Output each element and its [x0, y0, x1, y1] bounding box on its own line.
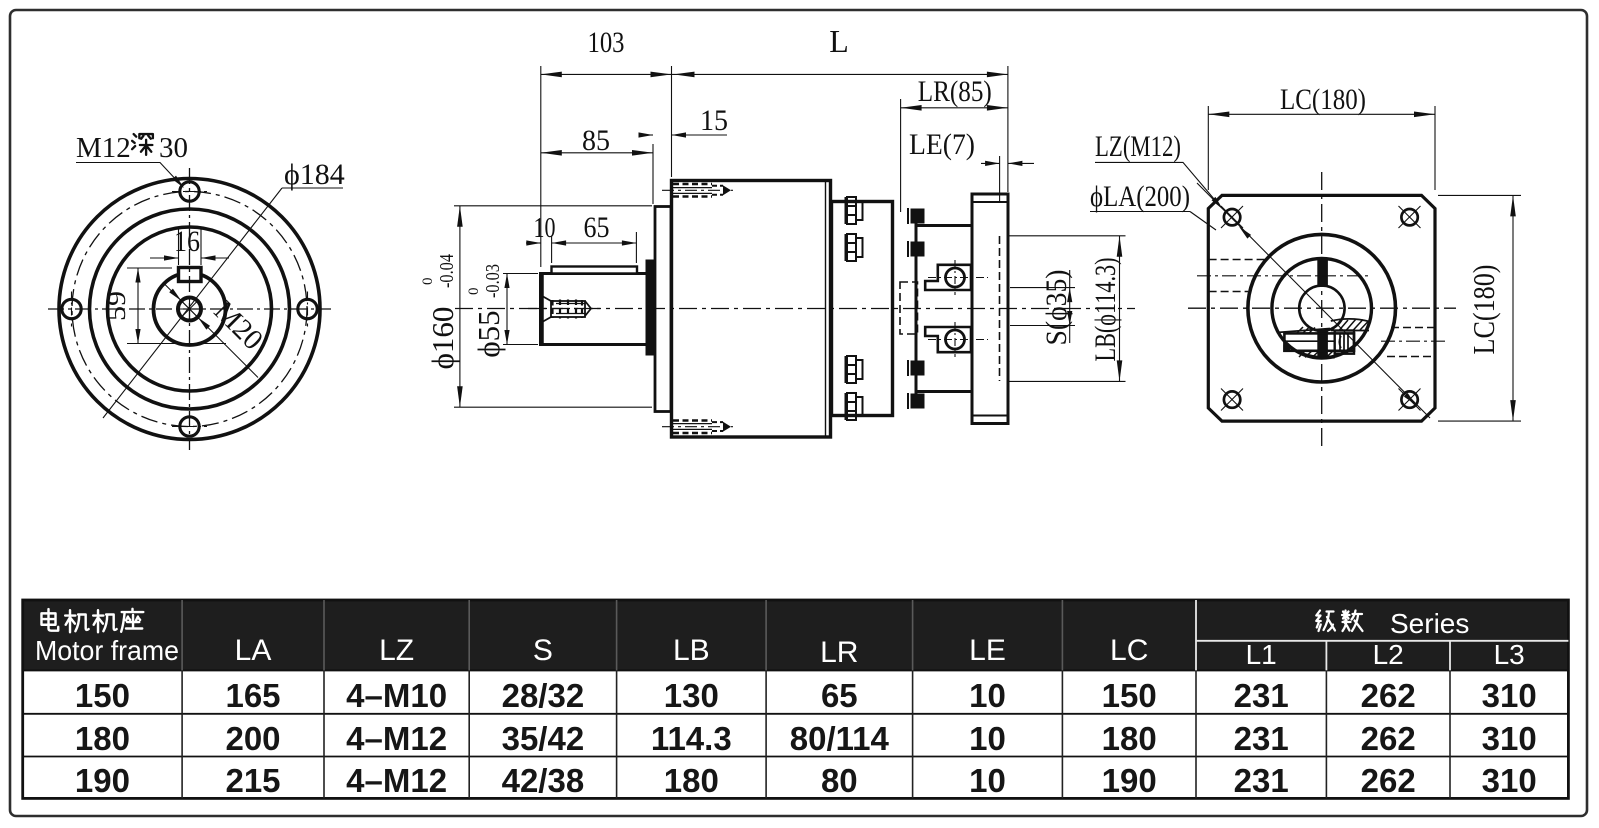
svg-text:42/38: 42/38 [502, 762, 585, 799]
svg-text:ϕLA(200): ϕLA(200) [1090, 180, 1190, 213]
svg-text:130: 130 [664, 677, 719, 714]
svg-text:S: S [533, 634, 553, 667]
rear housing bolt 3 [846, 356, 863, 383]
lower clamp screw block [925, 327, 971, 352]
phiLA leader connector [1190, 212, 1216, 231]
collar small bolt 1 [908, 208, 924, 224]
svg-text:-0.04: -0.04 [436, 254, 458, 288]
svg-text:59: 59 [102, 291, 131, 321]
bottom stud cone tip [723, 422, 731, 432]
hidden line left upper [1209, 259, 1265, 261]
hatch upper-right boundary [1331, 319, 1370, 331]
phi184 text underline [282, 187, 343, 189]
phiLA leader underline [1090, 211, 1190, 213]
left bolt hole [62, 299, 81, 318]
svg-text:150: 150 [75, 677, 130, 714]
upper clamp screw block [925, 265, 971, 290]
svg-text:165: 165 [225, 677, 280, 714]
svg-text:310: 310 [1482, 762, 1537, 799]
svg-text:4–M10: 4–M10 [346, 677, 447, 714]
dim line 10 tail [526, 242, 541, 244]
keyway width 16 extension lines [178, 228, 180, 265]
centerline left screw [1197, 275, 1370, 277]
body column lines [182, 670, 1450, 798]
hatch left wedge [1297, 327, 1315, 334]
clamp screw head square [1335, 331, 1354, 354]
phi55 ext lines [503, 273, 538, 275]
phi160 ext lines [454, 205, 652, 207]
svg-text:103: 103 [588, 26, 625, 59]
tapped hole thread ticks [553, 300, 583, 319]
top stud cone tip [723, 185, 731, 195]
inner recess circle [108, 227, 272, 391]
data rows [75, 677, 1537, 799]
ext line output plate right face (L/LR) [1007, 66, 1009, 192]
svg-text:30: 30 [159, 132, 188, 164]
hidden line right upper [1391, 327, 1435, 329]
tapped hole outline [551, 301, 585, 317]
svg-text:LR(85): LR(85) [918, 75, 992, 108]
svg-text:15: 15 [700, 104, 728, 137]
svg-text:262: 262 [1361, 762, 1416, 799]
ext line shaft end (103/10) [540, 66, 542, 267]
svg-text:L2: L2 [1373, 639, 1404, 670]
LC top ext lines [1207, 106, 1209, 190]
collar small bolt 4 [908, 393, 924, 409]
dim line 103 [541, 73, 672, 75]
output plate bottom lip line [972, 415, 1008, 417]
hatch upper-right wedge [1332, 319, 1368, 331]
output flange plate [972, 194, 1008, 424]
LB ext lines [1009, 235, 1126, 237]
dim line L [672, 73, 1008, 75]
front view vertical centerline [189, 168, 191, 450]
LB dim line [1119, 236, 1121, 382]
pilot circle phi160 [1248, 234, 1396, 382]
header 电机机座 glyphs [41, 609, 143, 632]
drill cone point [585, 301, 591, 316]
svg-text:190: 190 [75, 762, 130, 799]
hatch below block [1299, 351, 1333, 358]
svg-text:4–M12: 4–M12 [346, 720, 447, 757]
svg-text:ϕ160: ϕ160 [425, 307, 460, 370]
output shaft body [541, 274, 648, 345]
M20 hole inner cross [181, 301, 198, 318]
svg-text:180: 180 [664, 762, 719, 799]
LE dim arrow tails [981, 162, 1000, 164]
output plate hidden recess line [999, 236, 1001, 381]
dim 15 arrow tails [640, 134, 653, 136]
front flange plate phi160 [655, 207, 671, 412]
svg-text:200: 200 [225, 720, 280, 757]
svg-text:LB: LB [673, 634, 710, 667]
hub circle [154, 273, 226, 345]
dim 59 vertical line [137, 268, 139, 344]
M20 shaft hole circle [178, 298, 201, 321]
svg-text:LZ: LZ [379, 634, 414, 667]
phi55 dim line [506, 274, 508, 345]
svg-text:150: 150 [1102, 677, 1157, 714]
shaft keyway rectangle [179, 268, 202, 282]
hidden line left lower [1209, 291, 1248, 293]
svg-text:ϕ184: ϕ184 [284, 158, 345, 191]
table outer border [23, 600, 1569, 798]
shaft end tapped hole countersink [543, 297, 551, 322]
svg-text:LC(180): LC(180) [1280, 83, 1366, 116]
svg-text:85: 85 [582, 124, 610, 157]
svg-text:L: L [829, 23, 849, 59]
ext line flange left face (85) [652, 144, 654, 204]
bottom stud centerline [662, 426, 733, 428]
clamp block mid line [1284, 340, 1334, 342]
header bottom line [23, 669, 1569, 671]
svg-text:LC(180): LC(180) [1466, 265, 1501, 355]
svg-text:28/32: 28/32 [502, 677, 585, 714]
svg-text:Series: Series [1390, 608, 1469, 639]
header 级数 glyphs [1316, 611, 1362, 632]
output plate top lip line [972, 201, 1008, 203]
gearbox main body phi200 [672, 181, 831, 438]
svg-text:10: 10 [969, 677, 1006, 714]
svg-text:LA: LA [235, 634, 272, 667]
bore circle [1299, 286, 1344, 331]
lower slit bar (filled) [1317, 331, 1328, 358]
middle view dimension arrows [541, 72, 562, 78]
collar small bolt 2 [908, 241, 924, 257]
bore keyway slot (filled) [1317, 259, 1328, 287]
LC right dim line [1512, 195, 1514, 421]
bottom mounting stud thread (hidden) [673, 421, 712, 434]
LR dim line [901, 107, 1008, 109]
svg-text:231: 231 [1234, 720, 1289, 757]
svg-text:180: 180 [75, 720, 130, 757]
rear housing section [832, 202, 893, 416]
svg-text:262: 262 [1361, 720, 1416, 757]
svg-text:231: 231 [1234, 677, 1289, 714]
svg-text:16: 16 [174, 225, 200, 258]
ext lines 10/65 [551, 236, 553, 263]
svg-text:35/42: 35/42 [502, 720, 585, 757]
top bolt hole [180, 182, 199, 201]
svg-text:310: 310 [1482, 720, 1537, 757]
corner hole bottom-right [1401, 391, 1417, 407]
horizontal centerline [1188, 307, 1456, 309]
lower clamp screw [946, 330, 965, 349]
right view arrows [1212, 197, 1225, 211]
shaft left face thick line [539, 274, 544, 345]
svg-text:Motor frame: Motor frame [35, 635, 179, 666]
bolt circle (dash-dot) [72, 192, 307, 427]
hidden bore dashed rect [900, 282, 918, 334]
label phi160 tol (rotated) [420, 254, 460, 369]
LR ext line left [900, 99, 902, 212]
svg-text:ϕ55: ϕ55 [471, 310, 506, 357]
dim 59 extension lines [127, 267, 172, 269]
svg-text:LE: LE [969, 634, 1006, 667]
svg-text:10: 10 [534, 212, 556, 244]
svg-text:180: 180 [1102, 720, 1157, 757]
bottom bolt hole [180, 417, 199, 436]
corner hole top-left [1224, 209, 1240, 225]
M20 diameter line 45deg [163, 283, 258, 378]
square flange outline with chamfered corners [1208, 195, 1435, 421]
svg-text:10: 10 [969, 720, 1006, 757]
rear housing bolt 1 [846, 197, 863, 224]
shaft key [552, 267, 638, 274]
svg-text:231: 231 [1234, 762, 1289, 799]
svg-text:LB(ϕ114.3): LB(ϕ114.3) [1089, 258, 1122, 362]
clamp jaw upper edge [1277, 329, 1330, 333]
header text row [35, 608, 1525, 670]
svg-text:10: 10 [969, 762, 1006, 799]
svg-text:65: 65 [584, 211, 610, 244]
bolt circle diagonal [1197, 183, 1430, 418]
hub circle [1272, 258, 1372, 358]
label phi55 tol (rotated) [466, 264, 506, 358]
corner hole top-right [1401, 209, 1417, 225]
svg-text:0: 0 [466, 288, 482, 296]
top stud centerline [662, 189, 733, 191]
svg-text:L3: L3 [1494, 639, 1525, 670]
LC right ext lines [1438, 194, 1521, 196]
clamp screw socket arc [1339, 336, 1341, 348]
arrows front view [172, 176, 186, 190]
svg-text:65: 65 [821, 677, 858, 714]
dim line 85 [541, 152, 653, 154]
clamp block outline [1284, 333, 1354, 350]
clamp collar front face [915, 210, 918, 407]
upper clamp screw [946, 268, 965, 287]
table header black band [23, 600, 1569, 670]
svg-text:LR: LR [820, 636, 858, 669]
phi160 dim line [459, 206, 461, 407]
right bolt hole [298, 299, 317, 318]
svg-text:LC: LC [1110, 634, 1148, 667]
svg-text:L1: L1 [1246, 639, 1277, 670]
S dim line with tails [1069, 270, 1071, 343]
ext line body left face (103/L) [671, 66, 673, 177]
hatch below boundary [1296, 351, 1335, 358]
rear housing bolt 2 [846, 234, 863, 261]
outer flange circle [59, 179, 320, 440]
collar small bolt 3 [908, 360, 924, 376]
svg-text:0: 0 [420, 278, 436, 286]
dim line 65 [552, 242, 637, 244]
svg-text:262: 262 [1361, 677, 1416, 714]
svg-text:80/114: 80/114 [790, 720, 890, 757]
hidden line right lower [1387, 356, 1435, 358]
shaft shoulder ring (filled) [647, 261, 656, 355]
svg-text:114.3: 114.3 [651, 720, 732, 757]
main horizontal centerline [455, 308, 1135, 310]
svg-text:M12: M12 [76, 132, 131, 164]
svg-text:LE(7): LE(7) [909, 128, 975, 161]
svg-text:190: 190 [1102, 762, 1157, 799]
corner hole bottom-left [1224, 391, 1240, 407]
pilot circle [90, 209, 290, 409]
phi184 leader diagonal [103, 188, 282, 418]
M12 leader underline [76, 163, 181, 186]
body inner right line [825, 181, 827, 438]
svg-text:80: 80 [821, 762, 858, 799]
row line 1 [23, 713, 1569, 715]
row line 2 [23, 756, 1569, 758]
series sub split [1195, 600, 1197, 670]
centerline right screw [1381, 340, 1449, 342]
rear housing bolt 4 [846, 393, 863, 420]
shaft hole centerline [528, 308, 600, 310]
clamp left corner (filled) [1283, 345, 1290, 352]
header column separators [182, 600, 1062, 670]
front view horizontal centerline [48, 308, 331, 310]
LE ext line left (recess face) [999, 156, 1001, 202]
S(phi35) ext lines [1010, 287, 1075, 289]
svg-text:215: 215 [225, 762, 280, 799]
dim line 16 [150, 257, 179, 259]
svg-text:LZ(M12): LZ(M12) [1095, 130, 1181, 163]
vertical centerline [1321, 172, 1323, 446]
clamp collar body [916, 226, 972, 392]
clamp screw socket lines [1340, 334, 1348, 351]
svg-text:S(ϕ35): S(ϕ35) [1040, 270, 1073, 346]
LZ leader [1095, 162, 1220, 206]
svg-text:310: 310 [1482, 677, 1537, 714]
top mounting stud thread (hidden) [673, 184, 712, 197]
svg-text:4–M12: 4–M12 [346, 762, 447, 799]
LC top dim line [1208, 113, 1435, 115]
svg-text:-0.03: -0.03 [482, 264, 504, 298]
